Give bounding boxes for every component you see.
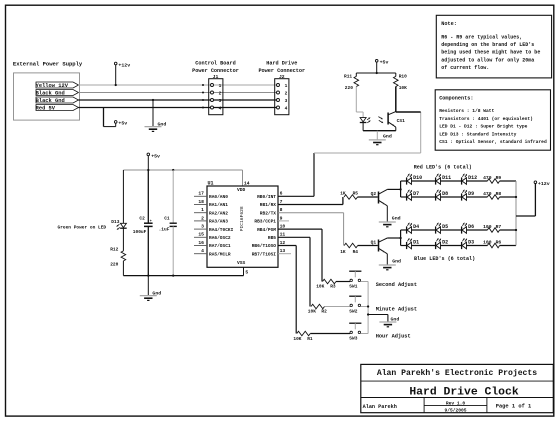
- wire red row 1: [401, 180, 488, 182]
- U1 right pin 6 (RB0/INT): [257, 191, 283, 200]
- wire Q1 collector to LED bus: [387, 237, 400, 239]
- svg-text:R1: R1: [307, 336, 313, 342]
- svg-text:Green Power on LED: Green Power on LED: [58, 224, 107, 230]
- external power supply box: [14, 73, 80, 120]
- junction bus red row2: [515, 196, 517, 198]
- label Green Power on LED: [58, 224, 107, 230]
- U1 left pin 1 (RA2/AN2): [194, 207, 228, 216]
- svg-text:RB5: RB5: [268, 235, 276, 241]
- svg-text:of current flow.: of current flow.: [441, 65, 489, 71]
- svg-text:Note:: Note:: [441, 21, 457, 27]
- svg-text:RB4/PGM: RB4/PGM: [257, 227, 276, 233]
- svg-text:470: 470: [483, 175, 492, 181]
- svg-text:R9: R9: [496, 175, 502, 181]
- junction bus-SW2: [367, 305, 369, 307]
- svg-text:220: 220: [345, 85, 353, 91]
- U1 right pin 12 (RB6/T1OSO): [252, 240, 286, 249]
- svg-text:RB2/TX: RB2/TX: [260, 210, 277, 216]
- wire R6 to +12v bus: [500, 245, 516, 247]
- junction wire 3 at J1: [202, 99, 204, 101]
- junction red bus-collector: [399, 188, 401, 190]
- +5v power symbol (sensor): [375, 60, 388, 74]
- LED D8: [436, 189, 449, 200]
- svg-text:3: 3: [201, 224, 204, 230]
- svg-text:RA3/AN3: RA3/AN3: [209, 219, 228, 225]
- svg-text:18: 18: [198, 199, 204, 205]
- wire R9 to +12v bus: [500, 180, 516, 182]
- svg-text:17: 17: [198, 191, 204, 197]
- +12v power symbol: [114, 62, 130, 85]
- svg-text:RA7/OSC1: RA7/OSC1: [209, 243, 231, 249]
- +12v power symbol (LED supply): [534, 181, 550, 187]
- wire bus to gnd: [368, 315, 388, 322]
- wire pin10 to R3: [278, 229, 322, 281]
- svg-text:100: 100: [483, 224, 492, 230]
- wire blue row 1: [401, 229, 488, 231]
- U1 left pin 4 (RA5/MCLR): [194, 248, 231, 257]
- wire tag Red 5V: [36, 105, 79, 112]
- resistor R2: [308, 304, 327, 314]
- junction blue bus-collector: [399, 237, 401, 239]
- LED D7: [407, 189, 420, 200]
- svg-text:2: 2: [201, 215, 204, 221]
- resistor R4: [340, 243, 358, 255]
- svg-text:D3: D3: [468, 240, 474, 246]
- ground (power supply): [145, 121, 167, 131]
- svg-text:CS1 : Optical Sensor, standard: CS1 : Optical Sensor, standard infrared: [439, 139, 547, 145]
- svg-text:R10: R10: [399, 74, 407, 80]
- connector J2 label: [258, 61, 305, 80]
- LED D13: [111, 219, 126, 230]
- svg-text:Minute Adjust: Minute Adjust: [376, 306, 417, 312]
- label Second Adjust: [376, 282, 417, 288]
- wire Q2 collector to LED bus: [387, 188, 400, 190]
- svg-text:RB6/T1OSO: RB6/T1OSO: [252, 243, 277, 249]
- wire pin7 to R5: [278, 197, 343, 205]
- svg-text:16: 16: [198, 240, 204, 246]
- svg-text:CS1: CS1: [397, 118, 406, 124]
- svg-text:RB3/CCP1: RB3/CCP1: [254, 219, 276, 225]
- svg-text:3: 3: [219, 98, 222, 104]
- resistor R6: [483, 239, 501, 247]
- svg-text:Q2: Q2: [371, 191, 377, 197]
- IR emitter LED of CS1: [360, 117, 371, 122]
- wire rail to D13: [122, 170, 124, 223]
- wire R2 to SW2: [325, 306, 351, 308]
- wire Red 5V to J2 pin4: [79, 107, 278, 109]
- wire pin6 segment a: [278, 195, 314, 197]
- LED D1: [407, 238, 420, 249]
- wire +12v bus: [515, 181, 517, 246]
- svg-text:C2: C2: [139, 216, 145, 222]
- transistor Q2: [371, 189, 388, 205]
- wire switch bus: [367, 282, 369, 334]
- svg-text:4: 4: [201, 248, 204, 254]
- svg-text:SW2: SW2: [349, 309, 357, 315]
- junction wire 4 at J1: [202, 107, 204, 109]
- svg-text:2: 2: [285, 90, 288, 96]
- svg-text:Transistors : 4401 (or equival: Transistors : 4401 (or equivalent): [439, 116, 533, 122]
- wire VSS pin5 to gnd rail: [243, 267, 245, 275]
- wire tag Black Gnd: [36, 97, 79, 104]
- svg-text:.1uF: .1uF: [159, 226, 170, 232]
- U1 pin 14 number: [244, 180, 250, 186]
- svg-text:Control Board: Control Board: [195, 61, 235, 67]
- junction sensor rail: [376, 72, 378, 74]
- svg-text:Page 1 of 1: Page 1 of 1: [496, 404, 532, 410]
- LED D12: [462, 173, 478, 184]
- wire R1 to SW3: [310, 333, 350, 335]
- U1 pin13 stub: [278, 253, 291, 255]
- svg-text:100uF: 100uF: [133, 229, 147, 235]
- svg-text:RB1/RX: RB1/RX: [260, 202, 277, 208]
- J1 pin 3: [211, 98, 222, 104]
- U1 left pin 18 (RA1/AN1): [194, 199, 228, 208]
- svg-text:adjusted to allow for only 20m: adjusted to allow for only 20ma: [441, 57, 534, 63]
- svg-text:+5v: +5v: [151, 153, 160, 159]
- resistor R12: [110, 247, 126, 268]
- svg-text:Hour Adjust: Hour Adjust: [376, 333, 411, 339]
- svg-text:Gnd: Gnd: [392, 216, 401, 222]
- svg-text:+12v: +12v: [538, 181, 550, 187]
- wire pin6 segment d: [420, 112, 422, 153]
- svg-text:Gnd: Gnd: [392, 259, 401, 265]
- junction on Gnd wire: [152, 99, 154, 101]
- svg-text:Q1: Q1: [371, 239, 377, 245]
- svg-text:D1: D1: [413, 240, 419, 246]
- svg-text:R6: R6: [496, 239, 502, 245]
- LED D4: [407, 222, 420, 233]
- ground (switches): [379, 316, 399, 327]
- svg-text:Power Connector: Power Connector: [192, 68, 239, 74]
- svg-text:RA2/AN2: RA2/AN2: [209, 210, 228, 216]
- svg-text:4: 4: [219, 105, 222, 111]
- svg-text:Alan Parekh: Alan Parekh: [363, 404, 397, 410]
- svg-text:10K: 10K: [399, 85, 407, 91]
- svg-text:SW3: SW3: [349, 336, 357, 342]
- U1 left pin 16 (RA7/OSC1): [194, 240, 231, 249]
- svg-text:Power Connector: Power Connector: [258, 68, 305, 74]
- svg-text:D10: D10: [413, 175, 422, 181]
- resistor R7: [483, 224, 501, 232]
- wire sensor gnd rail: [363, 130, 396, 132]
- wire R12 to gnd rail: [122, 261, 124, 276]
- svg-text:D4: D4: [413, 224, 419, 230]
- svg-text:4: 4: [285, 105, 288, 111]
- svg-text:R7: R7: [496, 224, 502, 230]
- junction bus blue row1: [515, 229, 517, 231]
- switch SW2: [349, 296, 361, 314]
- svg-text:RA4/T0CKI: RA4/T0CKI: [209, 227, 234, 233]
- svg-text:Components:: Components:: [439, 95, 473, 101]
- svg-text:5: 5: [245, 269, 248, 275]
- junction gndrail-C1: [172, 274, 174, 276]
- U1 right pin 8 (RB2/TX): [260, 207, 283, 216]
- svg-text:D9: D9: [468, 191, 474, 197]
- external power supply block label: [13, 60, 83, 67]
- svg-text:1K: 1K: [340, 249, 346, 255]
- wire SW3 to bus: [361, 333, 369, 335]
- junction on 12V wire: [115, 84, 117, 86]
- svg-text:D8: D8: [442, 191, 448, 197]
- svg-text:3: 3: [285, 98, 288, 104]
- svg-text:10K: 10K: [293, 336, 301, 342]
- wire gnd tap: [152, 100, 154, 126]
- label Hour Adjust: [376, 333, 411, 339]
- label Minute Adjust: [376, 306, 417, 312]
- wire C2 to gnd rail: [147, 226, 149, 275]
- wire Q1 emitter to gnd: [386, 254, 388, 265]
- svg-text:Resistors : 1/8 Watt: Resistors : 1/8 Watt: [439, 108, 494, 114]
- ground (sensor): [369, 134, 392, 145]
- svg-text:D7: D7: [413, 191, 419, 197]
- wire Yellow 12V to J2 pin1: [79, 84, 278, 86]
- resistor R11: [344, 73, 359, 91]
- U1 pin 5 number: [245, 269, 248, 275]
- svg-text:RA5/MCLR: RA5/MCLR: [209, 251, 231, 257]
- LED D9: [462, 189, 475, 200]
- svg-text:Red LED's (6 total): Red LED's (6 total): [414, 165, 472, 171]
- svg-text:RA6/OSC2: RA6/OSC2: [209, 235, 231, 241]
- J2 pin 4: [277, 105, 288, 111]
- wire SW2 to bus: [361, 306, 369, 308]
- wire red row 2: [401, 196, 488, 198]
- U1 left pin 15 (RA6/OSC2): [194, 232, 231, 241]
- svg-text:14: 14: [244, 180, 250, 186]
- LED D5: [436, 222, 449, 233]
- U1 left pin 2 (RA3/AN3): [194, 215, 228, 224]
- svg-text:SW1: SW1: [349, 284, 357, 290]
- J2 pin 1: [277, 83, 288, 89]
- svg-text:Blue LED's (6 total): Blue LED's (6 total): [414, 256, 475, 262]
- svg-text:Rev 1.0: Rev 1.0: [446, 400, 466, 406]
- wire sensor rail: [356, 72, 396, 74]
- svg-text:R12: R12: [110, 247, 118, 253]
- junction rail-C2: [147, 169, 149, 171]
- wire tag Yellow 12V: [36, 82, 79, 89]
- svg-text:Gnd: Gnd: [383, 134, 392, 140]
- switch SW1: [349, 271, 361, 289]
- svg-text:Gnd: Gnd: [158, 121, 167, 127]
- junction wire 1 at J1: [202, 84, 204, 86]
- svg-text:Gnd: Gnd: [391, 316, 400, 322]
- LED D10: [407, 173, 423, 184]
- svg-text:+12v: +12v: [118, 62, 130, 68]
- wire gnd stem: [147, 276, 149, 296]
- ground (Q2): [379, 216, 401, 227]
- resistor R1: [293, 331, 313, 342]
- svg-text:D11: D11: [442, 175, 451, 181]
- wire pin6 segment b: [313, 153, 315, 196]
- wire sensor gnd stem: [376, 131, 378, 140]
- svg-text:100: 100: [483, 239, 492, 245]
- transistor Q1: [371, 238, 388, 254]
- resistor R3: [316, 279, 336, 289]
- svg-text:depending on the brand of LED': depending on the brand of LED's: [441, 42, 534, 48]
- +5v power symbol (supply): [114, 121, 127, 127]
- svg-text:D5: D5: [442, 224, 448, 230]
- wire pin8 to R4: [278, 213, 344, 246]
- connector J1 label: [192, 61, 239, 80]
- svg-text:C1: C1: [164, 216, 170, 222]
- LED D6: [462, 222, 475, 233]
- wire Black Gnd to J2 pin2: [79, 92, 278, 94]
- svg-text:9/5/2005: 9/5/2005: [444, 407, 466, 413]
- wire D13 to R12: [122, 228, 124, 251]
- svg-text:D13: D13: [111, 219, 119, 225]
- wire rail to C2: [147, 170, 149, 223]
- svg-text:10K: 10K: [308, 308, 316, 314]
- svg-text:RB7/T1OSI: RB7/T1OSI: [252, 251, 277, 257]
- wire R3 to SW1: [336, 281, 350, 283]
- phototransistor CS1: [378, 112, 405, 131]
- wire tag Black Gnd: [36, 90, 79, 97]
- wire rail to VDD pin14: [242, 170, 244, 186]
- LED D11: [436, 173, 452, 184]
- wire +5v tap: [104, 108, 116, 127]
- J1 pin 4: [211, 105, 222, 111]
- resistor R9: [483, 175, 501, 183]
- svg-text:RB0/INT: RB0/INT: [257, 194, 276, 200]
- junction wire 2 at J1: [202, 92, 204, 94]
- capacitor C1: [159, 216, 177, 233]
- svg-text:VDD: VDD: [237, 187, 246, 193]
- ground (logic): [140, 291, 161, 301]
- svg-text:D12: D12: [468, 175, 477, 181]
- svg-text:PIC16F628: PIC16F628: [239, 206, 245, 231]
- wire rail to C1: [172, 170, 174, 223]
- svg-text:VSS: VSS: [237, 260, 246, 266]
- IC U1 (PIC16F628): [207, 180, 278, 267]
- wire blue LED left bus: [400, 230, 402, 246]
- ground (Q1): [379, 259, 401, 270]
- title block: [361, 364, 554, 413]
- svg-text:R6 - R9 are typical values,: R6 - R9 are typical values,: [441, 34, 522, 40]
- wire R4 to Q1 base: [358, 245, 378, 247]
- svg-text:LED D1 - D12 : Super Bright ty: LED D1 - D12 : Super Bright type: [439, 124, 527, 130]
- J1 pin 1: [211, 83, 222, 89]
- capacitor C2: [133, 216, 153, 235]
- junction gndrail-C2: [147, 274, 149, 276]
- J2 pin 3: [277, 98, 288, 104]
- U1 right pin 9 (RB3/CCP1): [254, 215, 282, 224]
- wire Q2 emitter to gnd: [386, 206, 388, 222]
- svg-text:1: 1: [201, 207, 204, 213]
- junction rail-C1: [172, 169, 174, 171]
- U1 right pin 11 (RB5): [268, 232, 286, 241]
- svg-text:Gnd: Gnd: [152, 291, 161, 297]
- svg-text:LED D13 : Standard Intensity: LED D13 : Standard Intensity: [439, 131, 516, 137]
- wire R11 to IR LED: [356, 87, 363, 118]
- svg-text:2: 2: [219, 90, 222, 96]
- U1 right pin 13 (RB7/T1OSI): [252, 248, 286, 257]
- wire R8 to +12v bus: [500, 196, 516, 198]
- svg-text:R3: R3: [330, 283, 336, 289]
- J2 pin 2: [277, 90, 288, 96]
- label blue LEDs: [414, 256, 475, 262]
- +5v power symbol (logic rail): [147, 153, 160, 170]
- connector J1: [209, 79, 223, 115]
- wire +5v rail: [123, 169, 242, 171]
- U1 pin9 stub: [278, 220, 289, 222]
- wire pin12 to R1: [278, 246, 296, 334]
- LED D3: [462, 238, 475, 249]
- svg-text:R2: R2: [321, 308, 327, 314]
- label red LEDs: [414, 165, 472, 171]
- svg-text:1: 1: [219, 83, 222, 89]
- svg-text:470: 470: [483, 191, 492, 197]
- wire pin11 to R2: [278, 237, 310, 306]
- svg-text:being used these might have to: being used these might have to be: [441, 50, 540, 56]
- svg-text:+5v: +5v: [118, 121, 127, 127]
- svg-text:Hard Drive: Hard Drive: [266, 61, 297, 67]
- wire collector node to route: [396, 111, 421, 113]
- wire R7 to +12v bus: [500, 229, 516, 231]
- wire pin6 segment c: [314, 152, 421, 154]
- svg-text:+: +: [150, 220, 152, 224]
- svg-text:R4: R4: [353, 249, 359, 255]
- wire IR LED to gnd rail: [362, 123, 364, 131]
- LED D2: [436, 238, 449, 249]
- wire R5 to Q2 base: [358, 196, 378, 198]
- svg-text:10K: 10K: [316, 283, 324, 289]
- wire R10 to collector: [395, 87, 397, 113]
- svg-text:+5v: +5v: [380, 60, 389, 66]
- svg-text:Alan Parekh's Electronic Proje: Alan Parekh's Electronic Projects: [377, 369, 537, 378]
- svg-text:D6: D6: [468, 224, 474, 230]
- wire blue row 2: [401, 245, 488, 247]
- svg-text:External Power Supply: External Power Supply: [13, 60, 83, 67]
- junction bus-gnd: [367, 313, 369, 315]
- wire bus to +12v symbol: [516, 184, 535, 217]
- connector J2: [275, 79, 289, 115]
- svg-text:220: 220: [110, 262, 118, 268]
- svg-text:R8: R8: [496, 191, 502, 197]
- switch SW3: [349, 323, 361, 341]
- J1 pin 2: [211, 90, 222, 96]
- svg-text:RA0/AN0: RA0/AN0: [209, 194, 228, 200]
- resistor R8: [483, 191, 501, 199]
- svg-text:RA1/AN1: RA1/AN1: [209, 202, 228, 208]
- svg-text:Yellow 12V: Yellow 12V: [36, 83, 69, 89]
- components box: [435, 90, 550, 150]
- wire SW1 to bus: [361, 281, 369, 283]
- svg-text:1K: 1K: [340, 191, 346, 197]
- wire red LED left bus: [400, 181, 402, 197]
- svg-text:R5: R5: [353, 191, 359, 197]
- svg-text:R11: R11: [344, 74, 352, 80]
- svg-text:1: 1: [285, 83, 288, 89]
- note box: [436, 15, 551, 78]
- wire Black Gnd to J2 pin3: [79, 99, 278, 101]
- wire C1 to gnd rail: [172, 226, 174, 275]
- svg-text:Black Gnd: Black Gnd: [36, 98, 65, 104]
- resistor R10: [394, 73, 408, 91]
- U1 left pin 3 (RA4/T0CKI): [194, 224, 234, 233]
- svg-text:Black Gnd: Black Gnd: [36, 91, 65, 97]
- svg-text:Second Adjust: Second Adjust: [376, 282, 417, 288]
- U1 right pin 7 (RB1/RX): [260, 199, 283, 208]
- wire ground rail: [123, 275, 243, 277]
- svg-text:U1: U1: [208, 180, 214, 186]
- svg-text:Red 5V: Red 5V: [36, 106, 56, 112]
- U1 right pin 10 (RB4/PGM): [257, 224, 285, 233]
- U1 left pin 17 (RA0/AN0): [194, 191, 228, 200]
- svg-text:Hard Drive Clock: Hard Drive Clock: [409, 387, 519, 399]
- svg-text:15: 15: [198, 232, 204, 238]
- svg-text:D2: D2: [442, 240, 448, 246]
- resistor R5: [340, 191, 358, 200]
